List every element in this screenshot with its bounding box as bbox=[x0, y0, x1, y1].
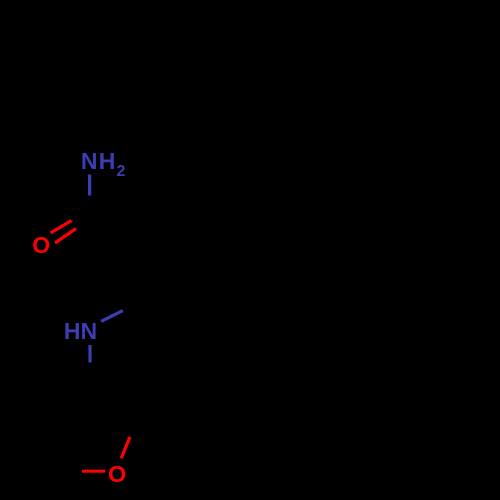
wire bond N-C down blue half bbox=[88, 345, 91, 363]
svg-text:O: O bbox=[108, 461, 126, 487]
wire bond C=O double, lower red half bbox=[55, 229, 76, 244]
wire bond N-C(=O) blue half bbox=[88, 175, 91, 196]
wire bond O-C left red half bbox=[82, 470, 105, 473]
svg-text:HN: HN bbox=[64, 318, 97, 344]
wire bond O-C up-right red half bbox=[121, 437, 130, 459]
svg-text:NH: NH bbox=[81, 148, 117, 174]
wire bond C=O double, upper red half bbox=[51, 221, 72, 234]
svg-text:2: 2 bbox=[117, 163, 126, 180]
svg-text:O: O bbox=[32, 232, 50, 258]
wire bond N-C up-right blue half bbox=[101, 311, 123, 322]
